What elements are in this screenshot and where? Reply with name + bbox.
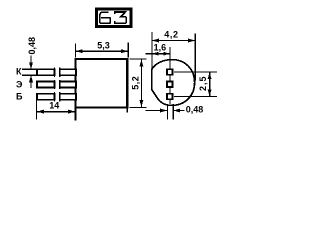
svg-text:0,48: 0,48 (27, 37, 37, 55)
svg-text:5,3: 5,3 (97, 40, 110, 50)
svg-text:1,6: 1,6 (154, 42, 167, 52)
svg-text:К: К (16, 67, 22, 77)
svg-text:0,48: 0,48 (186, 105, 204, 115)
svg-text:14: 14 (49, 100, 59, 110)
svg-text:5,2: 5,2 (130, 76, 140, 90)
svg-text:4,2: 4,2 (164, 29, 178, 39)
svg-text:Б: Б (16, 92, 23, 102)
svg-text:Э: Э (16, 79, 23, 89)
svg-text:2,5: 2,5 (198, 75, 208, 91)
